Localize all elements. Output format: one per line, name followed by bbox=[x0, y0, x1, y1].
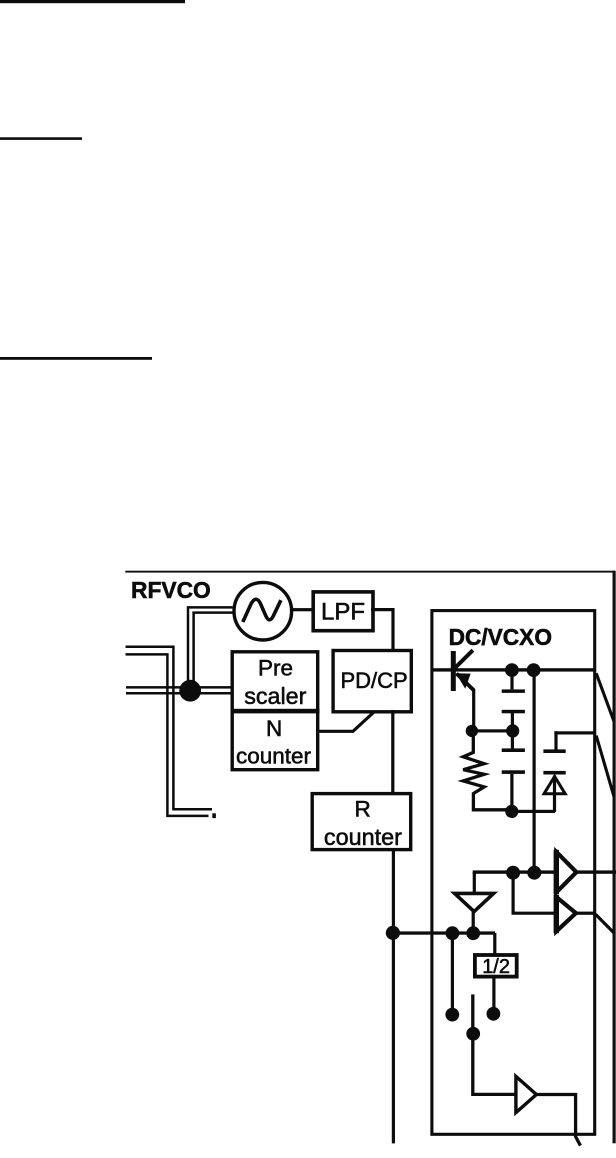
varactor D1 top stub bbox=[554, 731, 557, 751]
N counter box bbox=[232, 711, 318, 770]
wire R counter down (long vertical) bbox=[392, 850, 395, 1144]
svg-text:RFVCO: RFVCO bbox=[131, 577, 211, 603]
junction dot n9 bbox=[446, 926, 460, 940]
wire LPF to PD/CP (elbow) bbox=[371, 610, 393, 650]
wire N counter to PD/CP bbox=[317, 712, 374, 731]
transistor Q1 emitter with arrowhead bbox=[457, 674, 475, 691]
capacitor C2 plate 1 bbox=[502, 748, 525, 752]
junction dot n10 bbox=[466, 926, 480, 940]
wire n4 to n3 bbox=[472, 729, 513, 732]
svg-text:1/2: 1/2 bbox=[482, 956, 510, 978]
capacitor C2 top stub bbox=[511, 731, 514, 749]
selector pole wire bbox=[473, 994, 516, 1094]
wire n6 down and into buffer U2 bbox=[513, 873, 556, 914]
capacitor C2 plate 2 bbox=[502, 770, 525, 774]
sine wave inside oscillator bbox=[243, 599, 281, 622]
resistor R1 (zigzag) with elbow to n5 bbox=[463, 731, 512, 810]
buffer U4 (bottom small buffer) bbox=[516, 1076, 537, 1112]
elbow down to 1/2 divider bbox=[493, 933, 496, 954]
svg-text:R: R bbox=[355, 797, 371, 822]
varactor D1 triangle bbox=[544, 777, 565, 794]
svg-text:scaler: scaler bbox=[244, 683, 306, 709]
double wire pair B: upper-left elbow down to lower stub bbox=[126, 647, 213, 810]
long vertical net from n2 down bbox=[533, 670, 536, 873]
divider 1/2 box bbox=[475, 955, 517, 977]
wire U3 apex down to net bbox=[472, 912, 475, 934]
contact dot n12 bbox=[445, 1008, 459, 1022]
DC/VCXO block outer box bbox=[432, 611, 595, 1135]
buffer U1 (upper output buffer) bbox=[556, 852, 576, 893]
Pre scaler box bbox=[232, 652, 318, 711]
R counter box bbox=[312, 794, 411, 850]
varactor D1 capacitor bar bbox=[543, 749, 565, 753]
transistor Q1 base bar bbox=[451, 651, 456, 691]
heading underline 1 (top of page) bbox=[0, 0, 185, 3]
wire 1/2 box down to contact bbox=[492, 977, 495, 1008]
right-edge bus vertical line bbox=[613, 571, 616, 1144]
varactor D1 cathode bar bbox=[543, 771, 565, 775]
buffer U2 (lower output buffer) bbox=[556, 897, 576, 932]
capacitor C1 plate 2 bbox=[502, 710, 525, 714]
svg-text:counter: counter bbox=[324, 824, 402, 850]
svg-text:Pre: Pre bbox=[258, 656, 293, 681]
diagonal wire D2 out (middle) bbox=[596, 736, 614, 797]
junction dot (RF input node) bbox=[179, 680, 201, 702]
junction dot n8 (on R-counter line) bbox=[386, 926, 400, 940]
stub end mark bbox=[212, 813, 216, 818]
capacitor C1 bottom stub bbox=[511, 713, 514, 731]
net line y=872 inside box bbox=[473, 870, 557, 873]
heading underline 3 bbox=[0, 357, 152, 360]
wire y=811 from n5 to varactor bbox=[511, 810, 555, 813]
capacitor C1 plate 1 bbox=[502, 689, 525, 693]
svg-text:counter: counter bbox=[236, 744, 312, 769]
contact dot n11 bbox=[487, 1007, 501, 1021]
LPF box bbox=[313, 592, 373, 631]
double wire pair A: dot up to oscillator bbox=[188, 607, 233, 689]
capacitor C1 top stub bbox=[510, 670, 513, 689]
junction dot n4 bbox=[466, 725, 478, 737]
junction dot n3 bbox=[506, 724, 519, 737]
inverted buffer U3 (points down) bbox=[455, 893, 494, 911]
pole dot n13 bbox=[466, 1027, 480, 1041]
junction dot n7 bbox=[527, 866, 541, 880]
junction dot n5 bbox=[505, 805, 518, 818]
wire n9 down to contact bbox=[451, 933, 454, 1008]
wire varactor to box edge bbox=[554, 731, 595, 734]
wire oscillator to LPF bbox=[291, 608, 312, 611]
double wire pair C: left to Pre scaler through junction bbox=[126, 686, 232, 689]
junction dot n1 bbox=[505, 663, 519, 677]
net line y=670 inside box bbox=[432, 668, 596, 671]
thin separator line above diagram bbox=[125, 571, 615, 573]
varactor D1 anode stub bbox=[553, 776, 556, 813]
transistor Q1 emitter down wire bbox=[472, 689, 475, 731]
transistor Q1 collector diagonal bbox=[454, 650, 473, 668]
heading underline 2 bbox=[0, 137, 82, 140]
capacitor C2 bottom stub bbox=[510, 774, 513, 812]
wire U4 output down through box edge bbox=[536, 1095, 580, 1146]
oscillator circle (RF VCO symbol) bbox=[234, 582, 292, 640]
inverted buffer U3 stub from net bbox=[473, 872, 476, 894]
svg-text:DC/VCXO: DC/VCXO bbox=[449, 624, 552, 650]
svg-text:PD/CP: PD/CP bbox=[341, 668, 408, 693]
junction dot n2 bbox=[527, 663, 541, 677]
net line y=933 from R-counter line into box bbox=[393, 931, 496, 934]
diagonal wire D1 out (top) bbox=[596, 673, 614, 721]
PD/CP box bbox=[333, 651, 411, 712]
junction dot n6 bbox=[506, 866, 520, 880]
svg-text:LPF: LPF bbox=[321, 598, 365, 625]
wire PD/CP down to R counter bbox=[391, 710, 394, 793]
diagonal wire D3 out (buffer U2) bbox=[596, 914, 614, 932]
wire buffer U1 output to right edge bbox=[575, 870, 616, 873]
svg-text:N: N bbox=[266, 716, 282, 741]
wire buffer U2 output to box edge bbox=[575, 912, 596, 915]
